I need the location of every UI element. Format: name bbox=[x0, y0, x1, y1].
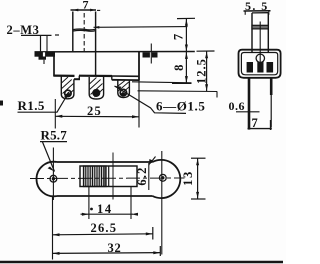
flange line bbox=[35, 51, 195, 53]
front view knob top edge bbox=[73, 29, 96, 31]
front view knob right edge continuing into body bbox=[95, 12, 97, 77]
svg-text:R1.5: R1.5 bbox=[18, 98, 45, 113]
right ear hole notch bbox=[150, 52, 152, 57]
dimension 25: left extension bbox=[54, 99, 56, 129]
dim 26.5 arrow right bbox=[146, 232, 153, 235]
slider side face line bbox=[108, 166, 110, 187]
side 5.5 left tick bbox=[244, 11, 246, 15]
dim 14 line bbox=[81, 213, 134, 215]
dim 26.5 arrow left bbox=[53, 233, 60, 236]
6-d1.5 leader arrow bbox=[115, 86, 122, 90]
side pin right upper bbox=[270, 78, 273, 95]
right hole vertical centerline + extension bbox=[161, 151, 163, 255]
dim 13 arrow top bbox=[196, 159, 199, 166]
extension from terminal bottom to 12.5-dim bbox=[138, 90, 218, 93]
dim B arrow bottom bbox=[205, 84, 208, 91]
svg-text:7: 7 bbox=[83, 0, 89, 12]
dim 14 arrow right bbox=[131, 213, 138, 216]
horizontal centerline bottom view bbox=[30, 177, 185, 180]
right hole center bbox=[161, 176, 164, 179]
dim A arrow mid-down bbox=[185, 52, 188, 59]
extension line from knob top to right dims bbox=[94, 26, 188, 29]
dim 26.5 right bar bbox=[152, 227, 154, 240]
right ear centerline bbox=[150, 44, 152, 64]
dim 13 bottom bar bbox=[191, 198, 206, 200]
6-d1.5 leader bbox=[115, 86, 187, 113]
boss left edge bbox=[78, 76, 80, 80]
dim B top bar bbox=[197, 50, 215, 52]
arrow on knob-top extension bbox=[94, 26, 100, 29]
svg-text:26.5: 26.5 bbox=[91, 221, 118, 235]
svg-text:R5.7: R5.7 bbox=[41, 128, 68, 143]
dim 32 arrow left bbox=[53, 252, 60, 255]
side terminal block 2 bbox=[257, 62, 263, 73]
terminal 1 hole ring bbox=[65, 90, 71, 96]
side pin right extension bbox=[270, 95, 272, 127]
terminal 3 hatch bbox=[118, 81, 129, 96]
slider hatch lines bbox=[85, 166, 105, 187]
svg-text:13: 13 bbox=[181, 170, 195, 186]
right hole ring bbox=[159, 174, 166, 181]
side knob left edge bbox=[251, 13, 253, 53]
dim 14 right extension bbox=[130, 187, 132, 219]
terminal 1 hole shade bbox=[65, 93, 71, 96]
M3 dim line dash bbox=[55, 34, 59, 36]
side terminal block 1 bbox=[247, 62, 253, 73]
side knob band bbox=[252, 25, 268, 29]
side knob right edge bbox=[267, 13, 269, 53]
0.6 leader underline bbox=[236, 111, 260, 113]
stadium vertical centerline bbox=[112, 153, 114, 200]
svg-text:7: 7 bbox=[252, 116, 258, 130]
body bottom boss top bbox=[79, 75, 112, 78]
shared left extension for 26.5 and 32 bbox=[52, 196, 54, 260]
R5.7 underline bbox=[40, 141, 67, 143]
svg-text:14: 14 bbox=[97, 202, 113, 216]
dimension 7 top: right arrow bbox=[90, 9, 96, 12]
terminal 2 hatch bbox=[89, 78, 103, 98]
left hole ring bbox=[50, 175, 57, 182]
slider knob hatched bbox=[84, 166, 107, 187]
side dim 7 right bar bbox=[270, 120, 272, 130]
6.2 arrow head bbox=[149, 159, 152, 166]
dim line A vertical (7/8) bbox=[185, 19, 187, 84]
R1.5 leader arrow bbox=[64, 92, 68, 99]
left ear centerline tail bbox=[43, 60, 45, 64]
front view knob left edge + extension bbox=[72, 12, 74, 53]
svg-text:0.6: 0.6 bbox=[229, 99, 246, 113]
extension from body bottom right to 8-dim bbox=[132, 82, 192, 83]
dim 32 arrow right bbox=[153, 251, 160, 254]
dimension 7 top: line bbox=[71, 9, 97, 11]
25 extension below body right bbox=[138, 81, 140, 128]
dim A arrow mid-up bbox=[185, 45, 188, 52]
left hole vertical centerline + 26.5 extension bbox=[52, 148, 54, 201]
svg-text:32: 32 bbox=[108, 241, 122, 255]
body bottom edge right segment bbox=[112, 75, 139, 77]
svg-text:6.2: 6.2 bbox=[135, 166, 149, 185]
terminal 1 hatch bbox=[62, 77, 74, 97]
svg-text:12.5: 12.5 bbox=[195, 58, 209, 84]
dim 13 arrow bottom bbox=[196, 192, 199, 199]
left edge artifact bbox=[0, 101, 3, 106]
R5.7 leader bbox=[43, 142, 55, 172]
slot rect bbox=[80, 166, 137, 187]
body bottom connector under t1 bbox=[74, 78, 80, 80]
M3 ext line b bbox=[46, 36, 48, 53]
side 5.5 right tick bbox=[268, 11, 270, 15]
dim A arrow top bbox=[185, 19, 188, 26]
dim 32 line bbox=[53, 252, 161, 255]
dim line B vertical (12.5) bbox=[206, 52, 208, 92]
bottom frame line bbox=[0, 261, 283, 264]
terminal 2 hole bbox=[93, 90, 99, 96]
boss right edge bbox=[111, 76, 113, 80]
left ear lip bbox=[39, 57, 47, 60]
left ear block bbox=[35, 52, 56, 56]
side body inner bbox=[241, 53, 277, 75]
body bottom bar left segment bbox=[53, 74, 74, 77]
body left edge bbox=[53, 52, 55, 76]
side knob top edge bbox=[252, 12, 268, 14]
dim A bottom bar bbox=[172, 82, 192, 84]
side view: 5.5 dim/knob top line bbox=[244, 10, 271, 12]
terminal ledge right segment bbox=[112, 79, 139, 81]
side body outer bbox=[239, 50, 281, 78]
dim A top bar bbox=[177, 17, 195, 19]
terminal 3 hole shade bbox=[120, 93, 126, 96]
dim 13 vertical bbox=[197, 158, 199, 199]
terminal 3 bbox=[118, 80, 130, 98]
terminal 3 hole ring bbox=[120, 89, 126, 95]
left ear hole notch bbox=[43, 52, 45, 56]
dimension 25: line bbox=[55, 115, 139, 118]
dimension 7 top: left arrow bbox=[73, 9, 79, 12]
dimension 25: left arrow bbox=[55, 115, 62, 118]
dim B arrow top bbox=[205, 52, 208, 59]
R5.7 leader arrow bbox=[48, 167, 55, 172]
svg-text:8: 8 bbox=[172, 65, 186, 71]
dimension 25: right arrow bbox=[132, 115, 139, 118]
dim 14 dot bbox=[90, 208, 93, 211]
terminal 1 bbox=[61, 76, 74, 99]
M3 dim line over ear bbox=[21, 34, 52, 36]
6.2 arrow tail bbox=[150, 157, 156, 164]
svg-text:7: 7 bbox=[172, 34, 186, 40]
side pin left bbox=[248, 78, 251, 130]
bottom view outline (stadium) bbox=[36, 160, 180, 198]
svg-text:25: 25 bbox=[87, 104, 102, 118]
dim 32 right bar (short) bbox=[159, 246, 161, 256]
terminal 2 bbox=[89, 77, 103, 99]
dim 13 top bar bbox=[191, 157, 206, 159]
dim 14 arrow left bbox=[82, 213, 89, 216]
6.2 dim vertical bbox=[148, 163, 150, 190]
right ear block bbox=[143, 52, 158, 57]
side dim 7: line bbox=[248, 128, 272, 130]
svg-text:6—Ø1.5: 6—Ø1.5 bbox=[156, 99, 205, 114]
left hole center bbox=[52, 177, 55, 180]
dim 26.5 line bbox=[53, 234, 153, 235]
side knob centerline bbox=[259, 22, 261, 71]
M3 ext line a bbox=[40, 36, 42, 53]
knob centerline dashed bbox=[83, 13, 85, 53]
small tail below 12.5 ext bbox=[216, 92, 218, 98]
dim 14 left extension bbox=[88, 187, 90, 219]
dim A arrow bottom bbox=[185, 76, 188, 83]
body right edge bbox=[138, 52, 140, 81]
R1.5 leader bbox=[18, 92, 70, 112]
side lever circle bbox=[256, 54, 264, 62]
side terminal block 3 bbox=[267, 62, 274, 73]
